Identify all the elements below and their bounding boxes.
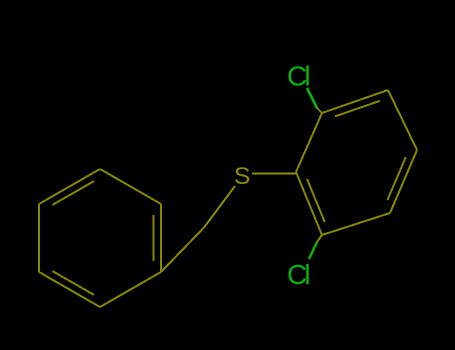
svg-text:Cl: Cl xyxy=(287,259,309,290)
svg-text:S: S xyxy=(234,163,250,190)
svg-text:Cl: Cl xyxy=(287,60,309,91)
